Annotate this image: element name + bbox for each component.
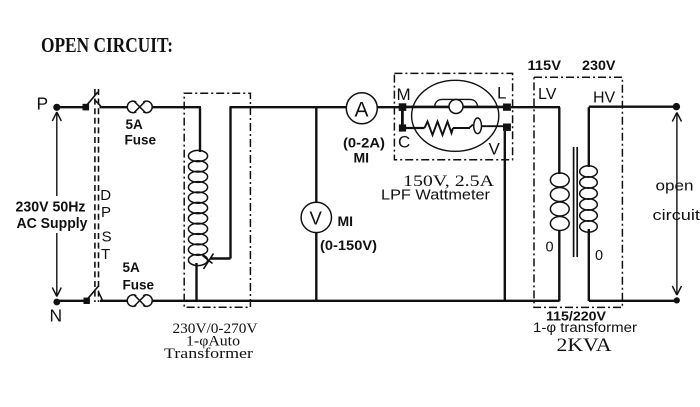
svg-text:230V: 230V <box>582 58 616 73</box>
svg-text:V: V <box>489 140 501 159</box>
svg-text:115V: 115V <box>528 58 562 73</box>
svg-text:A: A <box>355 99 369 122</box>
svg-text:0: 0 <box>546 240 554 256</box>
svg-text:Fuse: Fuse <box>123 278 155 293</box>
svg-text:P: P <box>101 204 111 221</box>
svg-text:T: T <box>101 246 110 263</box>
svg-text:Transformer: Transformer <box>164 346 253 362</box>
svg-text:OPEN CIRCUIT:: OPEN CIRCUIT: <box>41 33 173 57</box>
svg-text:Fuse: Fuse <box>125 133 157 148</box>
svg-text:5A: 5A <box>126 117 144 132</box>
svg-text:HV: HV <box>593 90 616 107</box>
svg-text:(0-150V): (0-150V) <box>320 238 377 253</box>
svg-text:5A: 5A <box>123 260 141 275</box>
svg-text:(0-2A): (0-2A) <box>343 136 385 151</box>
svg-text:L: L <box>497 84 506 103</box>
svg-text:MI: MI <box>338 213 354 229</box>
svg-text:open: open <box>656 179 694 195</box>
svg-text:1-φ transformer: 1-φ transformer <box>533 320 638 335</box>
svg-text:S: S <box>102 229 112 246</box>
svg-text:C: C <box>398 133 410 152</box>
svg-text:0: 0 <box>595 248 603 264</box>
svg-text:circuit: circuit <box>653 208 700 224</box>
svg-text:MI: MI <box>354 150 370 166</box>
svg-text:M: M <box>397 85 411 104</box>
svg-text:LPF Wattmeter: LPF Wattmeter <box>381 187 490 204</box>
svg-text:P: P <box>37 94 49 114</box>
svg-text:2KVA: 2KVA <box>557 335 612 356</box>
svg-text:D: D <box>100 187 111 204</box>
svg-text:LV: LV <box>538 86 557 103</box>
svg-text:V: V <box>310 208 323 229</box>
svg-text:230V 50Hz: 230V 50Hz <box>16 200 86 216</box>
svg-text:AC Supply: AC Supply <box>17 216 88 232</box>
svg-text:N: N <box>50 306 63 326</box>
